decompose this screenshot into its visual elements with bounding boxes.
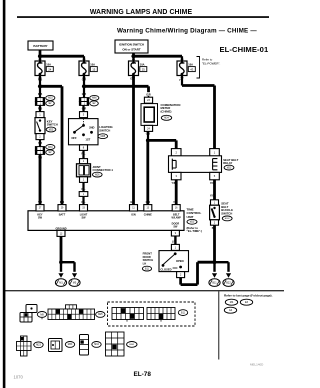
- refer to EL-POWER bracket: [197, 57, 200, 79]
- node fuse2 split: [82, 84, 86, 88]
- svg-text:M33: M33: [48, 147, 53, 149]
- wire to joint connector: [82, 150, 84, 159]
- connector id B302: [127, 342, 137, 348]
- svg-text:SW: SW: [38, 217, 43, 220]
- wire: [82, 182, 84, 192]
- front door switch pin: [171, 244, 179, 250]
- connector id B11: [178, 310, 187, 316]
- svg-text:M66: M66: [92, 98, 97, 100]
- connector id M33b: [65, 342, 74, 348]
- connector col1 lower: [35, 147, 44, 151]
- wire drop to fuse 1: [39, 56, 41, 61]
- svg-text:(CHIME): (CHIME): [161, 110, 172, 114]
- svg-text:EL-CHIME-01: EL-CHIME-01: [220, 45, 269, 54]
- svg-text:MEL140D: MEL140D: [250, 363, 264, 367]
- wire drop to fuse 2: [83, 56, 85, 61]
- svg-text:B302: B302: [129, 344, 135, 346]
- front door switch pin bottom: [177, 272, 185, 278]
- front door switch: [159, 251, 189, 272]
- wire meter feed down: [147, 86, 150, 92]
- svg-text:SW: SW: [173, 225, 178, 228]
- wire ground branch right: [215, 261, 229, 263]
- svg-text:M25: M25: [49, 129, 54, 131]
- wire ground stub: [60, 262, 62, 272]
- svg-text:R/B: R/B: [60, 201, 65, 204]
- svg-text:M1: M1: [59, 282, 63, 285]
- svg-text:2ND: 2ND: [89, 125, 94, 129]
- svg-text:15: 15: [92, 68, 96, 72]
- wire: [82, 196, 84, 205]
- lighting switch pin 5: [80, 112, 88, 118]
- connector M33/E2 col1 upper: [35, 98, 44, 102]
- wire drop to fuse 3: [132, 56, 134, 61]
- svg-text:M4: M4: [230, 301, 234, 304]
- connector view cross: [21, 336, 28, 356]
- wire fuse2 bottom: [83, 76, 85, 87]
- svg-text:M23: M23: [227, 167, 232, 169]
- svg-text:IGN: IGN: [131, 214, 136, 217]
- combination meter (chime): [141, 104, 158, 126]
- connector col2: [79, 98, 88, 102]
- node ignition junction: [131, 54, 135, 58]
- wire TCU ground down: [60, 236, 63, 262]
- svg-text:M23: M23: [36, 345, 41, 347]
- connector view M25 (cluster): [26, 305, 37, 313]
- TCU pin IGN: [130, 205, 138, 211]
- connector id ovals: [46, 95, 55, 100]
- svg-text:10A: 10A: [90, 63, 95, 67]
- wire: [39, 140, 41, 147]
- wire fuse3 down to TCU: [132, 76, 135, 206]
- fuse 3 10A [25]: [129, 61, 139, 76]
- connector view M33 (wide strip): [66, 305, 77, 309]
- svg-text:Y/B: Y/B: [173, 201, 177, 204]
- svg-text:SW: SW: [81, 217, 86, 220]
- TCU pin CHIME: [144, 205, 152, 211]
- connector id M34: [92, 342, 101, 348]
- wire door sw to ground run: [179, 278, 182, 285]
- wire down to relay: [213, 86, 216, 150]
- svg-text:24: 24: [48, 68, 52, 72]
- wire ground branch right: [61, 261, 75, 263]
- fuse 4 10A [43]: [177, 61, 187, 76]
- svg-text:UNIT: UNIT: [187, 215, 194, 219]
- svg-text:"EL-TIME".): "EL-TIME".): [187, 229, 203, 233]
- wire meter feed: [84, 85, 149, 88]
- svg-text:L/W: L/W: [172, 241, 177, 244]
- header rule: [17, 16, 269, 18]
- TCU pin BELT: [172, 205, 180, 211]
- svg-text:10A: 10A: [188, 63, 193, 67]
- wire fuse4 bottom: [181, 76, 183, 86]
- svg-text:SWITCH: SWITCH: [99, 128, 110, 132]
- svg-text:M34: M34: [94, 344, 99, 346]
- svg-text:RELAY: RELAY: [223, 161, 232, 165]
- seat belt buckle switch: [211, 200, 219, 205]
- seat belt relay pins bottom: [171, 172, 181, 179]
- wire col1 long down: [39, 154, 42, 205]
- wire drop to fuse 4: [181, 56, 183, 61]
- svg-text:CONNECTOR-1: CONNECTOR-1: [93, 168, 114, 172]
- connector id M33: [96, 312, 105, 318]
- connector view B (strip 1): [112, 308, 144, 320]
- wire battery down: [39, 50, 42, 56]
- note panel divider: [218, 291, 220, 359]
- TCU pin GROUND: [57, 230, 65, 236]
- wire junction to relay: [148, 139, 176, 142]
- TCU pin LIGHT SW: [80, 205, 88, 211]
- svg-text:G: G: [130, 201, 132, 204]
- svg-text:10A: 10A: [140, 63, 145, 67]
- svg-text:B22: B22: [226, 282, 231, 285]
- wire col2 down: [83, 86, 85, 97]
- time control unit: [28, 211, 184, 231]
- ground B11: [212, 273, 217, 278]
- wire to BATT branch: [40, 85, 62, 88]
- svg-text:SWITCH: SWITCH: [221, 212, 232, 216]
- svg-text:M33: M33: [48, 98, 53, 100]
- svg-text:10A: 10A: [46, 63, 51, 67]
- ignition switch: [115, 40, 148, 53]
- svg-text:M5: M5: [73, 282, 77, 285]
- svg-text:R/L: R/L: [81, 201, 86, 204]
- svg-text:B302: B302: [225, 218, 231, 220]
- connector M77: [79, 192, 88, 197]
- key switch: [36, 112, 44, 118]
- svg-text:WARNING LAMPS AND CHIME: WARNING LAMPS AND CHIME: [90, 9, 193, 16]
- ground M1: [58, 273, 63, 278]
- TCU pin KEY SW: [36, 205, 44, 211]
- svg-text:BATT: BATT: [59, 214, 66, 217]
- connector view grid: [106, 332, 125, 356]
- battery: [28, 41, 53, 50]
- svg-text:Y/R: Y/R: [38, 201, 42, 204]
- svg-text:"EL-POWER".: "EL-POWER".: [202, 61, 220, 65]
- svg-text:SWITCH: SWITCH: [47, 123, 58, 127]
- svg-text:R/B: R/B: [38, 93, 43, 96]
- TCU pin DOOR SW: [171, 230, 179, 236]
- svg-text:BATTERY: BATTERY: [33, 44, 48, 48]
- seat belt relay pins top: [171, 149, 181, 156]
- wire fuse1 bottom: [39, 76, 41, 87]
- svg-text:M33: M33: [68, 344, 73, 346]
- connector view B (strip 2): [147, 308, 175, 320]
- svg-text:43: 43: [190, 68, 194, 72]
- wire junction down to TCU chime: [146, 140, 149, 205]
- node ground left: [59, 260, 63, 264]
- seat belt relay: [169, 156, 222, 173]
- wire step right: [182, 84, 215, 87]
- lighting switch: [69, 119, 99, 145]
- wire ground stub: [213, 262, 215, 272]
- svg-text:W/LAMP: W/LAMP: [172, 217, 182, 220]
- wire relay to TCU belt: [175, 179, 178, 205]
- svg-text:EL-78: EL-78: [134, 371, 152, 378]
- section rule: [5, 290, 284, 291]
- ground B22: [226, 273, 231, 278]
- node fuse1 split: [38, 84, 42, 88]
- fuse 2 10A [15]: [79, 61, 89, 76]
- svg-text:1ST: 1ST: [85, 138, 90, 142]
- svg-text:G: G: [130, 77, 132, 80]
- wire col1 down: [39, 86, 41, 97]
- svg-text:Refer to last page (Foldout pa: Refer to last page (Foldout page).: [224, 294, 273, 298]
- svg-text:M25: M25: [98, 314, 103, 316]
- svg-text:ON or START: ON or START: [122, 48, 140, 52]
- svg-text:M28: M28: [101, 136, 106, 138]
- wire battery bus to fuse 2: [40, 55, 84, 58]
- svg-text:IGNITION SWITCH: IGNITION SWITCH: [119, 42, 144, 46]
- svg-text:R/B: R/B: [38, 79, 43, 82]
- wire BATT branch down: [61, 86, 64, 205]
- ground M5: [72, 273, 77, 278]
- svg-text:G/R: G/R: [82, 93, 87, 96]
- wire TCU door sw down: [174, 236, 176, 245]
- svg-text:CHIME: CHIME: [144, 214, 152, 217]
- connector id M23: [34, 342, 43, 348]
- connector id M25: [37, 312, 46, 318]
- svg-text:M25: M25: [190, 222, 195, 224]
- svg-text:SWITCH: SWITCH: [143, 258, 154, 262]
- connector view tall: [80, 335, 89, 356]
- svg-text:M34: M34: [164, 118, 169, 120]
- svg-text:1070: 1070: [14, 375, 24, 380]
- page left border: [3, 0, 6, 388]
- TCU pin BATT: [58, 205, 66, 211]
- wire ignition down: [132, 53, 135, 56]
- wire to lighting switch: [82, 105, 84, 112]
- joint connector-1: [80, 159, 88, 164]
- svg-text:25: 25: [142, 68, 146, 72]
- wire buckle to ground node: [213, 225, 216, 262]
- svg-text:BELT: BELT: [173, 214, 180, 217]
- svg-text:LH: LH: [143, 262, 147, 266]
- lighting switch pin 8: [80, 145, 88, 151]
- svg-text:FRONT: FRONT: [143, 251, 153, 255]
- svg-text:G/R: G/R: [82, 79, 87, 82]
- svg-text:Warning Chime/Wiring Diagram —: Warning Chime/Wiring Diagram — CHIME —: [117, 27, 257, 34]
- svg-text:G/B: G/B: [146, 201, 151, 204]
- foldout dashed box: [108, 302, 196, 326]
- svg-text:CLOSED: CLOSED: [160, 267, 171, 271]
- node battery junction: [38, 54, 42, 58]
- svg-text:OPEN: OPEN: [176, 259, 184, 263]
- wire to key switch: [39, 105, 41, 112]
- fuse 1 10A [24]: [35, 61, 45, 76]
- node ground right: [213, 260, 217, 264]
- svg-text:DOOR: DOOR: [143, 255, 151, 259]
- svg-text:OFF: OFF: [71, 136, 77, 140]
- connector view square: [49, 339, 63, 352]
- node chime junction: [146, 139, 150, 143]
- svg-text:M26: M26: [95, 174, 100, 176]
- svg-text:Y/G: Y/G: [210, 194, 214, 197]
- combination meter pin: [148, 96, 150, 98]
- wire meter out: [147, 131, 149, 140]
- wire relay to buckle switch: [213, 179, 216, 200]
- wire ignition bus to fuse 4: [134, 55, 183, 58]
- svg-text:B11: B11: [212, 282, 217, 285]
